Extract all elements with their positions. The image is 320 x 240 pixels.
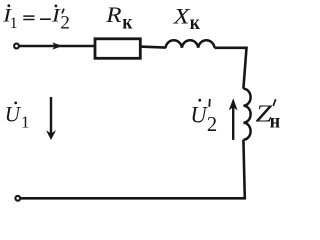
svg-text:I: I bbox=[51, 6, 61, 26]
svg-text:1: 1 bbox=[10, 15, 18, 32]
svg-text:R: R bbox=[105, 2, 122, 27]
svg-text:U: U bbox=[5, 101, 22, 126]
svg-text:2: 2 bbox=[207, 112, 217, 136]
svg-text:X: X bbox=[172, 4, 191, 29]
svg-text:1: 1 bbox=[21, 112, 30, 131]
svg-text:к: к bbox=[122, 12, 133, 33]
svg-text:к: к bbox=[190, 13, 201, 34]
svg-text:2: 2 bbox=[60, 13, 70, 34]
svg-text:н: н bbox=[270, 111, 281, 132]
svg-text:U: U bbox=[190, 102, 208, 127]
